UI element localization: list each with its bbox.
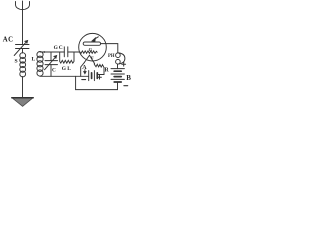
svg-text:C: C	[52, 68, 56, 74]
wire grid condenser to tube	[68, 51, 80, 53]
svg-text:GL: GL	[62, 66, 72, 72]
wire bottom return	[76, 89, 118, 91]
variable capacitor C1	[45, 56, 58, 70]
label plus battery B	[122, 62, 126, 66]
capacitor GC grid condenser	[64, 47, 68, 57]
wire C1 top stem	[50, 52, 52, 61]
label plus battery A	[98, 75, 102, 79]
antenna	[16, 2, 30, 10]
phones PH	[116, 53, 125, 64]
filament	[84, 55, 94, 63]
svg-text:GC: GC	[54, 45, 64, 51]
grid	[80, 51, 97, 53]
wire coil S to ground	[22, 77, 24, 98]
wire battery B bottom stem	[117, 82, 119, 90]
coil L	[37, 52, 43, 77]
plate	[83, 42, 100, 45]
wire C1 bottom stem	[50, 65, 52, 77]
wire filament left leg	[81, 62, 85, 76]
wire junction down	[75, 76, 77, 89]
svg-text:S: S	[15, 59, 18, 65]
wire top bus L to grid condenser	[40, 51, 64, 53]
wire phones to battery B	[117, 64, 119, 69]
label A pointer arrow	[84, 70, 86, 74]
svg-text:B: B	[126, 74, 131, 82]
wire plate lead	[101, 44, 118, 53]
wire cap to coil S	[22, 49, 24, 54]
label minus battery B	[124, 85, 128, 87]
svg-text:AC: AC	[3, 36, 14, 43]
label minus battery A	[82, 79, 86, 81]
ground	[12, 98, 33, 107]
svg-text:R: R	[105, 68, 110, 74]
resistor GL grid leak	[60, 52, 74, 63]
wire antenna lead-in	[22, 1, 24, 44]
battery B	[111, 69, 124, 82]
node coil L top	[43, 51, 45, 53]
variable capacitor AC	[14, 41, 29, 56]
resistor R rheostat	[94, 64, 104, 75]
label P pointer	[92, 37, 98, 41]
svg-text:L: L	[32, 57, 36, 63]
svg-text:PH: PH	[108, 54, 115, 59]
wire bottom bus	[40, 75, 89, 77]
tube V1 envelope	[79, 33, 107, 61]
coil S	[20, 53, 26, 77]
battery A	[89, 71, 98, 81]
